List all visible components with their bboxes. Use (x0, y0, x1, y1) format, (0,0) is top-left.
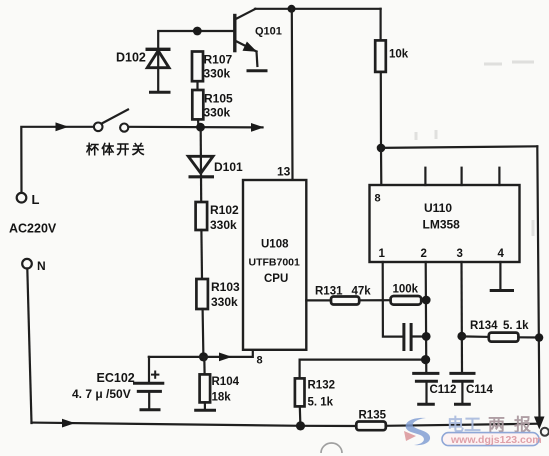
transistor Q101 (235, 9, 258, 66)
svg-text:1: 1 (379, 248, 386, 260)
svg-text:R131: R131 (315, 286, 343, 298)
watermark badge www.dgjs123.com (442, 433, 542, 446)
svg-text:R104: R104 (212, 376, 240, 388)
resistor R105 (192, 90, 203, 119)
wire: junction to CPU pin 13 (291, 9, 294, 180)
node: R132/bottom rail junction (296, 421, 305, 430)
svg-text:R107: R107 (204, 53, 233, 67)
svg-text:R105: R105 (204, 92, 233, 106)
IC U110 LM358 (370, 185, 520, 262)
resistor R103 (196, 279, 208, 309)
arrow on bottom rail (62, 419, 75, 428)
wire: U110 pin3 down (460, 262, 463, 372)
svg-text:47k: 47k (352, 286, 372, 298)
svg-text:D101: D101 (214, 160, 243, 174)
node: switch/D101 junction (196, 123, 205, 132)
node: 100k/pin2 junction (422, 296, 431, 305)
svg-text:3: 3 (457, 248, 463, 260)
wire: U110 pin4 to ground (499, 262, 501, 289)
capacitor C114 (451, 373, 474, 404)
node: EC102/R104/pin8 junction (199, 352, 208, 361)
resistor R131 (331, 297, 359, 305)
wire: right rail (537, 146, 539, 421)
svg-text:Q101: Q101 (255, 26, 282, 38)
resistor R135 (356, 422, 386, 431)
svg-text:2: 2 (421, 248, 427, 260)
node: pin2/C112 junction (421, 355, 430, 364)
svg-text:8: 8 (257, 355, 263, 367)
wire: switch to arrow end (129, 126, 263, 129)
resistor R102 (196, 202, 208, 230)
wire: U110 pin1 to feedback cap (383, 262, 404, 337)
potentiometer 100k (391, 296, 422, 305)
arrow on live wire (56, 122, 69, 131)
svg-text:N: N (37, 259, 46, 273)
wire: CPU to R131 (306, 299, 331, 301)
arrow at end of switch wire (251, 123, 264, 132)
svg-text:EC102: EC102 (97, 371, 135, 385)
terminal N (22, 259, 32, 269)
svg-text:4: 4 (498, 248, 505, 260)
wire: R132 node rail (300, 359, 426, 361)
wire: top rail collector node (255, 8, 381, 10)
IC U108 CPU (243, 180, 306, 350)
svg-text:两报: 两报 (488, 415, 540, 435)
pin stub top 3 (461, 168, 463, 185)
wire: R134 to right rail (518, 336, 539, 338)
faint circle artifact (321, 443, 342, 453)
resistor 10k (375, 9, 386, 148)
ground: U110 pin4 (490, 289, 514, 292)
wire: R102 to R103 (200, 230, 203, 279)
svg-text:R132: R132 (308, 380, 336, 392)
wire: 100k to pin2 node (421, 299, 426, 301)
svg-text:www.dgjs123.com: www.dgjs123.com (450, 434, 542, 446)
svg-text:8: 8 (375, 193, 381, 205)
wire: R107 to R105 (196, 81, 198, 90)
svg-text:UTFB7001: UTFB7001 (249, 257, 301, 269)
arrow at right rail bottom (534, 417, 545, 430)
diode D102 (146, 31, 171, 91)
wire: R103 to EC102 node (202, 309, 205, 357)
arrow toward pin 8 (219, 353, 232, 362)
ground: EC102 (140, 408, 161, 411)
wire: R131 to 100k (359, 299, 390, 301)
svg-text:330k: 330k (204, 106, 231, 120)
wire: L terminal to switch (21, 127, 93, 193)
svg-text:LM358: LM358 (423, 218, 461, 232)
switch 杯体开关 (94, 110, 128, 132)
svg-text:电工: 电工 (447, 415, 481, 435)
svg-text:AC220V: AC220V (9, 222, 57, 236)
capacitor feedback (unlabeled) (404, 325, 426, 350)
scan smudge marks (416, 62, 534, 236)
svg-text:R134: R134 (470, 320, 498, 332)
resistor R104 (200, 357, 211, 409)
terminal L (17, 193, 27, 203)
svg-text:330k: 330k (204, 67, 231, 81)
svg-text:4. 7 μ /50V: 4. 7 μ /50V (72, 387, 131, 401)
svg-text:100k: 100k (393, 284, 419, 296)
wire: N terminal to bottom rail (27, 269, 31, 424)
watermark logo (404, 418, 430, 445)
capacitor C112 (414, 373, 438, 404)
resistor R107 (192, 52, 203, 82)
svg-text:330k: 330k (211, 295, 238, 309)
wire: pin3 node to R134 (462, 335, 489, 338)
capacitor EC102 (135, 357, 163, 409)
svg-text:U108: U108 (261, 239, 289, 251)
svg-text:330k: 330k (210, 218, 237, 232)
node: D102/R107/base junction (193, 27, 202, 36)
ground: R104 (194, 409, 216, 412)
wire: EC102 node to CPU pin 8 (149, 350, 253, 357)
ground: D102 cathode (149, 91, 171, 94)
wire: top feedback rail to right rail (381, 146, 537, 148)
wire: D102 node to Q101 base (160, 30, 235, 32)
svg-text:杯体开关: 杯体开关 (86, 142, 147, 157)
svg-text:C112: C112 (430, 384, 457, 396)
node: pin3/R134 junction (457, 332, 466, 341)
svg-text:CPU: CPU (264, 273, 288, 285)
svg-text:5. 1k: 5. 1k (503, 320, 529, 332)
svg-text:L: L (32, 192, 40, 207)
svg-text:D102: D102 (116, 51, 146, 65)
wire: bottom rail left (32, 423, 357, 426)
wire: junction to U110 pin 8 (380, 148, 382, 185)
wire: R105 to switch-line node (197, 119, 200, 127)
diode D101 (188, 131, 214, 202)
svg-text:R103: R103 (211, 280, 240, 294)
wire: bottom rail right (386, 424, 540, 426)
node: collector/pin13/10k junction (288, 5, 296, 13)
node: 10k/pin8 junction (377, 144, 386, 153)
node: R134/right rail junction (535, 333, 543, 341)
ground: Q101 emitter (247, 69, 268, 72)
svg-text:C114: C114 (466, 384, 493, 396)
svg-text:R102: R102 (210, 203, 239, 217)
pin stub top 4 (498, 168, 500, 185)
resistor R132 (295, 360, 305, 426)
node: cap/pin2 junction (422, 332, 431, 341)
resistor R134 (489, 333, 519, 342)
svg-text:13: 13 (277, 165, 291, 179)
svg-text:10k: 10k (389, 49, 409, 61)
pin stub top 2 (424, 168, 426, 185)
wire: U110 pin2 down (425, 262, 428, 373)
svg-text:U110: U110 (424, 201, 452, 215)
svg-text:18k: 18k (212, 392, 232, 404)
svg-text:R135: R135 (359, 410, 387, 422)
terminal at bottom right (541, 428, 549, 436)
svg-text:5. 1k: 5. 1k (308, 397, 334, 409)
